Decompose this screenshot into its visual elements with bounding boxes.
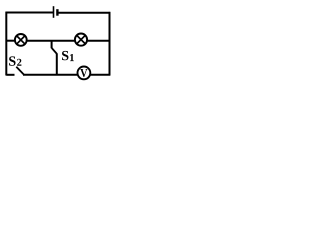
voltmeter V (78, 67, 91, 80)
switch S2 blade (16, 67, 24, 75)
wire middle-center segment (27, 40, 75, 42)
wire S1 branch lower (56, 54, 58, 76)
battery short plate (negative) (56, 9, 58, 16)
wire left side (5, 12, 7, 76)
lamp L2 (75, 34, 87, 46)
switch S1 blade (52, 48, 57, 54)
wire top-right segment (59, 12, 111, 14)
label S1 (62, 51, 74, 61)
wire middle-right segment (87, 40, 110, 42)
wire bottom-right segment (90, 74, 110, 76)
label S2 (9, 56, 21, 65)
wire top-left segment (6, 12, 54, 14)
wire bottom-left segment (6, 74, 14, 76)
lamp L1 (15, 34, 27, 46)
wire S1 branch upper (51, 41, 53, 49)
wire right side (109, 12, 111, 76)
wire bottom-center segment (23, 74, 78, 76)
wire middle-left segment (6, 40, 15, 42)
battery long plate (positive) (53, 6, 55, 18)
